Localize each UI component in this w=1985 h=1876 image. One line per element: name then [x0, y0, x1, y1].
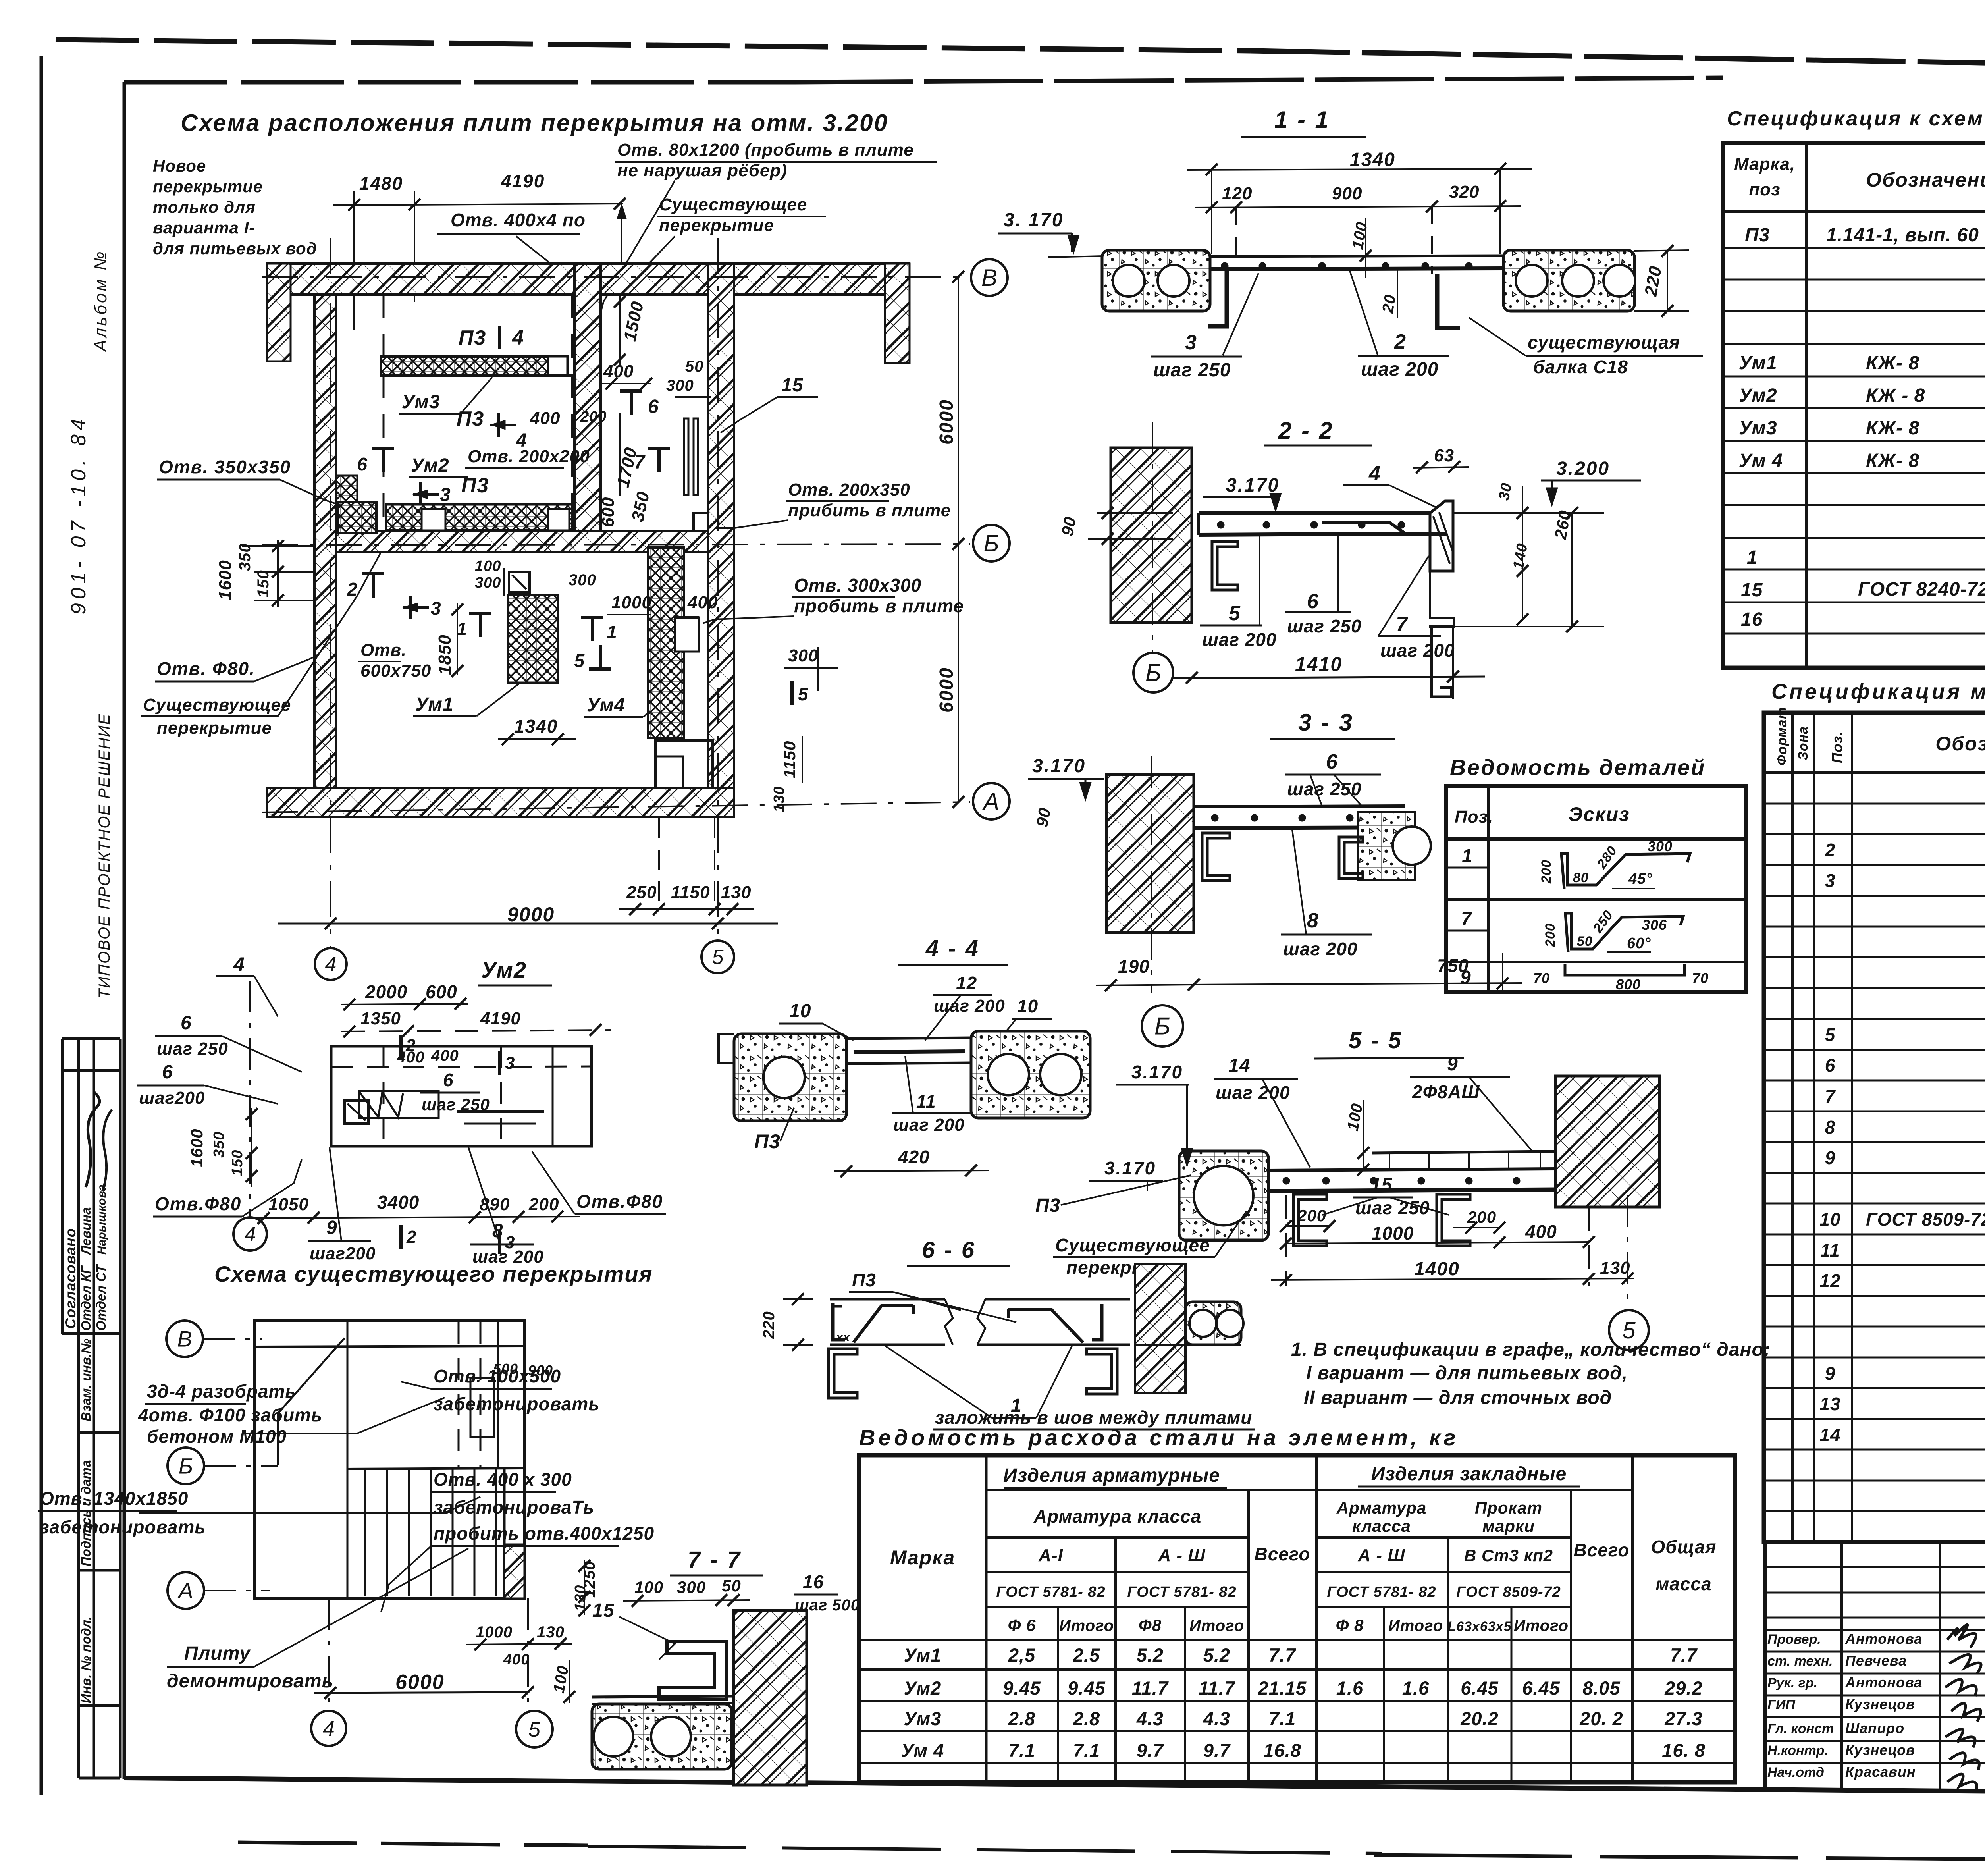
- hollow block right: [1185, 1302, 1241, 1345]
- svg-text:16: 16: [803, 1571, 824, 1592]
- svg-text:6000: 6000: [936, 667, 957, 713]
- svg-text:7: 7: [1825, 1086, 1836, 1107]
- dim 90: [1097, 512, 1173, 514]
- svg-text:12: 12: [956, 973, 977, 993]
- svg-text:1150: 1150: [671, 883, 710, 902]
- svg-text:пробить в плите: пробить в плите: [794, 596, 964, 616]
- svg-text:1350: 1350: [360, 1009, 401, 1028]
- svg-text:6000: 6000: [395, 1671, 445, 1694]
- svg-text:Ф8: Ф8: [1139, 1616, 1162, 1635]
- svg-text:Отдел СТ: Отдел СТ: [94, 1264, 108, 1331]
- svg-text:16. 8: 16. 8: [1662, 1740, 1706, 1761]
- inner bits: [345, 1101, 368, 1124]
- axis 4: [330, 238, 331, 949]
- svg-text:2,5: 2,5: [1008, 1645, 1035, 1666]
- svg-text:5.2: 5.2: [1137, 1645, 1164, 1666]
- hook bars: [1208, 268, 1227, 326]
- svg-text:10: 10: [1017, 996, 1038, 1016]
- svg-text:4 - 4: 4 - 4: [925, 935, 980, 961]
- svg-text:1480: 1480: [359, 173, 403, 194]
- svg-text:60°: 60°: [1627, 935, 1651, 952]
- svg-text:8: 8: [1307, 909, 1319, 932]
- flags 2,3 bottom: [399, 1225, 403, 1249]
- svg-text:1600: 1600: [216, 560, 235, 600]
- svg-text:2: 2: [406, 1227, 416, 1247]
- svg-text:КЖ- 8: КЖ- 8: [1866, 353, 1919, 374]
- svg-text:П3: П3: [1035, 1195, 1060, 1216]
- svg-text:9: 9: [1460, 967, 1471, 988]
- cut flags 2,2,3 left: [382, 449, 385, 472]
- wall: bottom band: [267, 788, 734, 817]
- svg-text:2 - 2: 2 - 2: [1278, 417, 1334, 444]
- grid axis bubble 5: [701, 941, 734, 973]
- drawing frame left: [123, 82, 126, 1779]
- svg-text:11.7: 11.7: [1199, 1677, 1235, 1699]
- svg-text:Ум2: Ум2: [1739, 385, 1777, 406]
- big C channel below left: [829, 1349, 857, 1398]
- svg-text:Кузнецов: Кузнецов: [1845, 1742, 1915, 1758]
- svg-text:320: 320: [1449, 182, 1479, 202]
- svg-text:Ум 4: Ум 4: [901, 1740, 944, 1761]
- svg-text:7: 7: [634, 452, 646, 473]
- svg-text:6: 6: [162, 1062, 173, 1083]
- channel C24 cross section: [659, 1642, 727, 1699]
- detail outline: [331, 1046, 592, 1146]
- svg-text:3: 3: [505, 1053, 515, 1073]
- svg-text:Рук. гр.: Рук. гр.: [1767, 1675, 1817, 1691]
- grid axis bubble А: [168, 1572, 204, 1609]
- svg-text:14: 14: [1819, 1425, 1840, 1445]
- svg-text:200: 200: [580, 409, 607, 425]
- svg-text:Эскиз: Эскиз: [1568, 803, 1630, 825]
- svg-text:Поз.: Поз.: [1455, 807, 1493, 827]
- svg-text:Обозначение: Обозначение: [1866, 169, 1985, 191]
- svg-text:90: 90: [1058, 515, 1080, 537]
- svg-text:2: 2: [347, 579, 357, 600]
- svg-text:1.6: 1.6: [1336, 1677, 1363, 1699]
- table: [1446, 786, 1746, 992]
- wall: top band: [267, 264, 734, 295]
- svg-text:1850: 1850: [435, 634, 455, 675]
- bottom-right notch steps: [655, 740, 713, 788]
- cut flag 3: [419, 482, 422, 506]
- svg-text:шаг 250: шаг 250: [157, 1039, 228, 1059]
- svg-text:В Ст3 кп2: В Ст3 кп2: [1464, 1546, 1553, 1565]
- svg-text:Зона: Зона: [1796, 726, 1811, 760]
- frame: [859, 1455, 1735, 1782]
- svg-text:350: 350: [236, 543, 254, 571]
- svg-text:Плиту: Плиту: [184, 1643, 251, 1664]
- svg-text:200: 200: [1467, 1208, 1496, 1226]
- svg-text:4: 4: [245, 1223, 256, 1246]
- svg-text:Всего: Всего: [1255, 1544, 1310, 1564]
- svg-text:только для: только для: [153, 198, 256, 216]
- svg-text:В: В: [981, 264, 997, 291]
- drawing frame bottom: [124, 1778, 1985, 1795]
- svg-text:забетонироваТь: забетонироваТь: [434, 1497, 594, 1517]
- svg-text:Ум3: Ум3: [904, 1708, 942, 1729]
- svg-text:шаг 250: шаг 250: [1287, 779, 1362, 799]
- svg-text:Ум2: Ум2: [411, 455, 449, 476]
- svg-text:901- 07 -10. 84: 901- 07 -10. 84: [67, 415, 90, 615]
- svg-text:80: 80: [1573, 870, 1589, 885]
- svg-text:Ум 4: Ум 4: [1739, 450, 1783, 471]
- svg-text:1000: 1000: [611, 593, 652, 612]
- svg-text:10: 10: [1819, 1209, 1840, 1230]
- slab plate right: [1503, 250, 1634, 311]
- svg-text:шаг 200: шаг 200: [893, 1115, 965, 1135]
- svg-text:3.170: 3.170: [1032, 756, 1086, 777]
- svg-text:70: 70: [1692, 970, 1709, 986]
- svg-text:900: 900: [528, 1362, 553, 1379]
- svg-text:не нарушая рёбер): не нарушая рёбер): [617, 161, 787, 180]
- left slab block: [734, 1034, 846, 1121]
- svg-text:500: 500: [493, 1361, 518, 1377]
- svg-text:Ведомость деталей: Ведомость деталей: [1450, 755, 1706, 780]
- svg-text:А: А: [177, 1578, 193, 1603]
- svg-text:КЖ- 8: КЖ- 8: [1866, 450, 1919, 471]
- svg-text:5: 5: [1229, 602, 1241, 625]
- svg-text:600: 600: [598, 497, 618, 527]
- right edge hook: [1092, 1304, 1102, 1340]
- svg-text:ГОСТ 5781- 82: ГОСТ 5781- 82: [1127, 1584, 1236, 1600]
- corner bracket bottom right of room: [694, 513, 708, 531]
- svg-text:Б: Б: [179, 1454, 193, 1479]
- svg-text:шаг 200: шаг 200: [1283, 939, 1358, 959]
- svg-text:Отв. 1340х1850: Отв. 1340х1850: [40, 1488, 188, 1509]
- svg-text:Отв. 80х1200 (пробить в плите: Отв. 80х1200 (пробить в плите: [617, 140, 914, 160]
- svg-text:9000: 9000: [507, 903, 555, 925]
- svg-text:12: 12: [1819, 1271, 1840, 1291]
- svg-text:Изделия арматурные: Изделия арматурные: [1003, 1465, 1220, 1486]
- svg-text:Схема расположения плит пер: Схема расположения плит перекрытия на от…: [181, 110, 888, 136]
- svg-text:Общая: Общая: [1651, 1537, 1717, 1557]
- wall: [1106, 775, 1194, 933]
- svg-text:3 - 3: 3 - 3: [1298, 709, 1354, 736]
- svg-text:150: 150: [229, 1150, 246, 1176]
- wall: top band right extension: [734, 264, 909, 295]
- svg-text:Инв. № подл.: Инв. № подл.: [79, 1616, 93, 1703]
- svg-text:15: 15: [592, 1600, 615, 1621]
- svg-text:13: 13: [1819, 1394, 1840, 1414]
- svg-text:11: 11: [916, 1091, 936, 1112]
- svg-text:6: 6: [1307, 590, 1319, 613]
- svg-text:11: 11: [1820, 1240, 1840, 1261]
- svg-text:Спецификация к схеме распол: Спецификация к схеме расположения плит п…: [1727, 107, 1985, 130]
- svg-text:120: 120: [1222, 184, 1252, 203]
- svg-text:10: 10: [789, 1001, 811, 1022]
- svg-text:Взам. инв.№: Взам. инв.№: [79, 1338, 93, 1421]
- svg-text:300: 300: [677, 1578, 706, 1596]
- svg-text:Арматура класса: Арматура класса: [1033, 1506, 1202, 1527]
- svg-text:4190: 4190: [480, 1009, 521, 1028]
- svg-text:3. 170: 3. 170: [1004, 210, 1064, 231]
- svg-text:марки: марки: [1482, 1517, 1535, 1535]
- svg-text:4.3: 4.3: [1203, 1708, 1230, 1729]
- rebar dots: [1221, 262, 1228, 270]
- svg-text:20. 2: 20. 2: [1579, 1708, 1623, 1729]
- svg-text:130: 130: [771, 786, 788, 812]
- svg-text:300: 300: [475, 575, 501, 591]
- svg-text:перекрытие: перекрытие: [659, 216, 774, 235]
- svg-text:П3: П3: [461, 474, 489, 497]
- end block at 3.200: [1430, 501, 1453, 571]
- svg-text:существующая: существующая: [1528, 332, 1680, 353]
- title block frame: [1765, 1540, 1985, 1544]
- svg-text:400: 400: [530, 409, 560, 428]
- svg-text:шаг 250: шаг 250: [422, 1095, 490, 1114]
- svg-text:А - Ш: А - Ш: [1158, 1546, 1206, 1565]
- paper left edge: [40, 56, 43, 1795]
- svg-text:Ведомость расхода стали на: Ведомость расхода стали на элемент, кг: [859, 1425, 1459, 1450]
- svg-text:200: 200: [528, 1195, 559, 1214]
- svg-text:перекрытие: перекрытие: [157, 718, 272, 738]
- svg-text:шаг200: шаг200: [139, 1088, 205, 1108]
- svg-text:Провер.: Провер.: [1767, 1632, 1821, 1647]
- svg-text:1600: 1600: [187, 1129, 206, 1167]
- svg-text:50: 50: [1577, 934, 1593, 949]
- svg-text:Новое: Новое: [153, 156, 206, 175]
- axis Б: [262, 544, 970, 545]
- svg-text:Отв.: Отв.: [360, 640, 407, 660]
- svg-text:Изделия закладные: Изделия закладные: [1371, 1463, 1567, 1485]
- svg-text:балка С18: балка С18: [1533, 357, 1628, 377]
- edge channel small + xx: [833, 1303, 845, 1340]
- svg-text:7: 7: [1461, 908, 1472, 929]
- svg-text:для питьевых вод: для питьевых вод: [153, 239, 317, 258]
- wall slots: [684, 418, 688, 495]
- svg-text:ТИПОВОЕ ПРОЕКТНОЕ РЕШЕНИЕ: ТИПОВОЕ ПРОЕКТНОЕ РЕШЕНИЕ: [96, 713, 113, 999]
- svg-text:5: 5: [1825, 1024, 1836, 1045]
- svg-text:А - Ш: А - Ш: [1358, 1546, 1405, 1565]
- svg-text:4: 4: [1368, 462, 1381, 485]
- svg-text:300: 300: [1648, 838, 1673, 854]
- svg-text:5: 5: [712, 946, 724, 969]
- svg-text:3.170: 3.170: [1104, 1158, 1156, 1178]
- svg-text:Схема существующего перекрыт: Схема существующего перекрытия: [214, 1261, 653, 1286]
- svg-text:4190: 4190: [501, 171, 545, 191]
- channel under slab: [1212, 542, 1238, 590]
- svg-text:250: 250: [626, 883, 657, 902]
- grid axis bubble 4: [311, 1711, 346, 1746]
- svg-text:шаг 200: шаг 200: [1202, 629, 1277, 650]
- svg-text:Ф 6: Ф 6: [1008, 1616, 1036, 1635]
- svg-text:1. В спецификации в графе„ кол: 1. В спецификации в графе„ количество“ д…: [1291, 1339, 1771, 1360]
- svg-text:ГОСТ 5781- 82: ГОСТ 5781- 82: [996, 1584, 1105, 1600]
- svg-text:забетонировать: забетонировать: [40, 1517, 206, 1537]
- svg-text:шаг200: шаг200: [310, 1244, 376, 1263]
- svg-text:II вариант — для сточных вод: II вариант — для сточных вод: [1304, 1387, 1612, 1408]
- svg-text:Марка,: Марка,: [1734, 154, 1795, 174]
- svg-text:420: 420: [898, 1147, 930, 1167]
- svg-text:ГОСТ 8509-72: ГОСТ 8509-72: [1866, 1209, 1985, 1230]
- svg-text:1340: 1340: [514, 716, 558, 737]
- svg-text:6: 6: [443, 1070, 454, 1090]
- grid axis bubble Б: [168, 1448, 204, 1484]
- svg-text:ГОСТ 8509-72: ГОСТ 8509-72: [1456, 1584, 1561, 1600]
- svg-text:Отв.Ф80: Отв.Ф80: [155, 1193, 241, 1214]
- svg-text:1: 1: [1747, 547, 1758, 568]
- sketch pos7: bent bar: [1565, 913, 1683, 952]
- svg-text:6.45: 6.45: [1461, 1677, 1498, 1699]
- svg-text:Кузнецов: Кузнецов: [1845, 1696, 1915, 1712]
- svg-text:20: 20: [1379, 293, 1399, 314]
- svg-text:L63х63х5: L63х63х5: [1447, 1619, 1511, 1634]
- drawing frame top: [124, 80, 794, 85]
- svg-text:Б: Б: [983, 530, 999, 557]
- Ум4 crosshatch column: [648, 548, 684, 738]
- svg-text:Ум3: Ум3: [1739, 418, 1777, 439]
- svg-text:Нарышкова: Нарышкова: [95, 1184, 108, 1255]
- svg-text:А: А: [982, 788, 999, 815]
- axis 5: [717, 238, 719, 939]
- svg-text:шаг 250: шаг 250: [1153, 360, 1231, 381]
- svg-text:7.1: 7.1: [1008, 1740, 1035, 1761]
- svg-text:100: 100: [634, 1578, 663, 1596]
- svg-text:27.3: 27.3: [1664, 1708, 1702, 1729]
- grid axis bubble 4: [233, 1217, 267, 1251]
- svg-text:9: 9: [1825, 1363, 1836, 1384]
- svg-text:11.7: 11.7: [1132, 1677, 1169, 1699]
- svg-text:1: 1: [607, 622, 617, 642]
- lower channel right: [1432, 627, 1451, 697]
- svg-text:5: 5: [528, 1718, 541, 1741]
- grid axis bubble А: [973, 783, 1010, 819]
- joint slab: [846, 1038, 971, 1039]
- svg-text:30: 30: [1496, 482, 1515, 502]
- svg-text:перекрытие: перекрытие: [153, 177, 263, 196]
- svg-text:1000: 1000: [476, 1623, 513, 1641]
- svg-text:4: 4: [325, 953, 337, 976]
- svg-text:300: 300: [666, 377, 694, 394]
- svg-text:Прокат: Прокат: [1475, 1498, 1542, 1517]
- svg-text:шаг 200: шаг 200: [1361, 359, 1438, 380]
- svg-text:400: 400: [687, 593, 718, 612]
- monolith strip Ум3: [381, 357, 567, 376]
- svg-text:2: 2: [405, 1036, 416, 1055]
- svg-text:1410: 1410: [1295, 653, 1342, 675]
- svg-text:Итого: Итого: [1059, 1617, 1114, 1635]
- svg-text:4отв. Ф100 забить: 4отв. Ф100 забить: [138, 1405, 322, 1425]
- wall: right outer: [708, 264, 734, 817]
- wall: right return: [885, 264, 910, 363]
- right C channel below: [1087, 1349, 1117, 1394]
- svg-text:7.1: 7.1: [1269, 1708, 1296, 1729]
- paper top edge scan line: [56, 40, 1251, 51]
- svg-text:16: 16: [1741, 609, 1763, 630]
- flag 7: [657, 449, 661, 472]
- svg-text:Альбом №: Альбом №: [91, 249, 110, 353]
- svg-text:2Ф8АШ: 2Ф8АШ: [1412, 1082, 1480, 1102]
- svg-text:15: 15: [1741, 580, 1763, 601]
- svg-text:демонтировать: демонтировать: [167, 1671, 333, 1692]
- svg-text:9.7: 9.7: [1203, 1740, 1231, 1761]
- grid axis bubble 5: [516, 1711, 553, 1747]
- svg-text:Нач.отд: Нач.отд: [1767, 1765, 1824, 1780]
- svg-text:2000: 2000: [365, 981, 407, 1002]
- slab plate left (hollow core): [1102, 250, 1210, 311]
- svg-text:6 - 6: 6 - 6: [922, 1237, 976, 1263]
- svg-text:9: 9: [1447, 1054, 1458, 1075]
- upper right room with dashed slabs: [458, 1322, 460, 1467]
- svg-text:350: 350: [211, 1132, 227, 1158]
- svg-text:220: 220: [760, 1311, 778, 1339]
- svg-text:Отв. 400 х 300: Отв. 400 х 300: [434, 1469, 572, 1490]
- svg-text:Отв. 200х200: Отв. 200х200: [468, 447, 590, 466]
- svg-text:7.7: 7.7: [1670, 1645, 1698, 1666]
- svg-text:4.3: 4.3: [1136, 1708, 1164, 1729]
- svg-text:Всего: Всего: [1574, 1540, 1630, 1560]
- flags 2,3 top: [399, 1035, 403, 1059]
- leader: [594, 181, 675, 341]
- svg-text:400: 400: [603, 362, 634, 381]
- svg-text:Существующее: Существующее: [1055, 1235, 1210, 1255]
- svg-text:9.45: 9.45: [1068, 1677, 1105, 1699]
- svg-text:306: 306: [1642, 917, 1667, 933]
- svg-text:900: 900: [1332, 184, 1362, 203]
- paper bottom edge dashes: [238, 1842, 588, 1845]
- svg-text:5: 5: [798, 684, 809, 704]
- svg-text:шаг 200: шаг 200: [1216, 1082, 1290, 1103]
- svg-text:50: 50: [722, 1576, 741, 1595]
- svg-text:9: 9: [1825, 1147, 1836, 1168]
- wall: left leg at top: [267, 264, 291, 361]
- svg-text:Отдел КГ: Отдел КГ: [79, 1265, 93, 1331]
- svg-text:90: 90: [1033, 806, 1054, 828]
- svg-text:шаг 250: шаг 250: [1287, 616, 1362, 636]
- svg-text:200: 200: [1297, 1206, 1326, 1225]
- svg-text:2: 2: [1394, 330, 1406, 353]
- lower room joist lines: [364, 1469, 366, 1596]
- svg-text:9.7: 9.7: [1137, 1740, 1164, 1761]
- svg-text:Отв. Ф80.: Отв. Ф80.: [157, 658, 255, 679]
- svg-text:1150: 1150: [780, 741, 799, 778]
- svg-text:1000: 1000: [1372, 1223, 1414, 1244]
- grid axis bubble 5: [1609, 1310, 1649, 1350]
- svg-text:6: 6: [357, 454, 367, 474]
- table2 frame: [1764, 713, 1985, 1542]
- svg-text:9.45: 9.45: [1003, 1677, 1041, 1699]
- svg-text:9: 9: [326, 1217, 337, 1238]
- svg-text:2.8: 2.8: [1008, 1708, 1035, 1729]
- svg-text:шаг 200: шаг 200: [1380, 640, 1455, 661]
- grid axis bubble Б: [1133, 653, 1173, 692]
- svg-text:130: 130: [1600, 1258, 1630, 1278]
- svg-text:50: 50: [685, 358, 704, 375]
- svg-text:I вариант — для питьевых вод: I вариант — для питьевых вод,: [1306, 1363, 1628, 1384]
- svg-text:Арматура: Арматура: [1336, 1498, 1427, 1517]
- svg-text:ГОСТ 8240-72: ГОСТ 8240-72: [1858, 579, 1985, 600]
- stamp column outline: [61, 1039, 64, 1334]
- slab: [1194, 806, 1405, 807]
- svg-text:15: 15: [781, 375, 804, 396]
- right wall: [1555, 1076, 1659, 1207]
- svg-text:6000: 6000: [936, 399, 957, 445]
- svg-text:Отв. 400х4 по: Отв. 400х4 по: [451, 210, 586, 230]
- svg-text:100: 100: [475, 558, 501, 575]
- axis А: [262, 802, 970, 812]
- svg-text:3: 3: [440, 484, 451, 505]
- svg-text:4: 4: [233, 953, 245, 976]
- svg-text:130: 130: [537, 1623, 565, 1641]
- svg-text:8: 8: [1825, 1117, 1836, 1138]
- svg-text:70: 70: [1533, 970, 1550, 986]
- sketch pos1: bent bar: [1561, 854, 1690, 889]
- svg-text:П3: П3: [459, 326, 486, 349]
- svg-text:7.7: 7.7: [1269, 1645, 1296, 1666]
- slab: [1199, 511, 1430, 515]
- svg-text:600х750: 600х750: [360, 661, 431, 681]
